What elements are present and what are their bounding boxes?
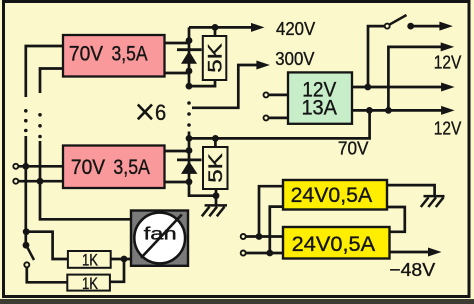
arrow -48V	[428, 248, 442, 257]
switch S2 contact	[24, 262, 29, 267]
U3 terminal lower	[264, 115, 269, 120]
svg-text:12V: 12V	[434, 52, 462, 73]
wire: R3/R4 right link	[110, 259, 124, 282]
dotted bus column1	[24, 109, 28, 132]
wire: module1 left input lower	[40, 69, 63, 94]
arrow 12V mid upper	[441, 83, 455, 92]
dotted bus column2	[38, 113, 42, 138]
wire: R3 right lead to fan	[111, 258, 131, 261]
ground module2	[202, 205, 227, 216]
wire: U4 output to ground	[387, 185, 435, 196]
yellow terminal lower	[241, 251, 246, 256]
node dot fan link	[121, 256, 128, 263]
converter U3 12V 13A	[288, 72, 352, 123]
svg-text:24V0,5A: 24V0,5A	[291, 184, 373, 207]
input terminal lower	[13, 179, 18, 184]
svg-text:24V0,5A: 24V0,5A	[292, 233, 375, 256]
node dots module1	[186, 24, 219, 90]
wire: switch S1 output to arrow	[411, 25, 441, 28]
wire: left bus column1 solid lower	[24, 136, 27, 245]
svg-text:12V: 12V	[434, 118, 462, 139]
wire: bus A to switch S1	[368, 26, 385, 87]
arrow 300V	[256, 61, 270, 70]
svg-text:1K: 1K	[82, 274, 99, 293]
input terminal upper	[13, 164, 18, 169]
diode D2	[177, 160, 202, 174]
resistor R2 5K	[203, 147, 228, 189]
svg-text:300V: 300V	[275, 48, 315, 69]
svg-text:5K: 5K	[206, 43, 227, 73]
wire: U5 output -48V	[390, 251, 430, 254]
node dots left inputs	[22, 163, 43, 235]
module U1 70V 3,5A box	[63, 35, 165, 77]
arrow switch output	[439, 22, 453, 31]
wire: green converter input lower	[268, 117, 288, 120]
svg-text:70V: 70V	[71, 156, 105, 179]
module U2 70V 3,5A box	[63, 146, 165, 189]
module U5 24V0,5A	[283, 227, 390, 259]
dotted bus column3	[187, 101, 191, 127]
wire: bus B to second 12V arrow	[388, 47, 442, 111]
fan unit	[131, 211, 188, 266]
resistor R1 5K	[203, 36, 227, 80]
wire: U4-U5 series link	[387, 207, 405, 232]
switch S2 blade	[26, 245, 34, 260]
wire: resistor R1 bottom lead	[189, 80, 215, 86]
wire: module1 output bus vertical	[188, 27, 191, 86]
arrow 420V	[251, 23, 265, 32]
wire: module2 left input lower	[18, 180, 63, 183]
wire: yellow module terminal upper feed	[246, 235, 283, 238]
diode D1	[177, 50, 202, 64]
svg-text:6: 6	[155, 100, 166, 125]
arrow 12V top	[441, 42, 455, 51]
wire: ground stub module2	[215, 196, 218, 206]
wire: left bus column2 solid lower	[40, 141, 131, 219]
wire: module1 right lead lower	[165, 72, 190, 75]
wire: U4 feed branch lower	[270, 207, 283, 253]
wire: module1 right lead upper	[165, 42, 190, 45]
svg-text:1K: 1K	[82, 250, 99, 269]
arrow 12V mid lower	[441, 106, 455, 115]
node dots yellow feeds	[256, 233, 274, 256]
svg-text:3,5A: 3,5A	[113, 156, 149, 179]
node dots right side	[364, 23, 414, 114]
svg-text:70V: 70V	[69, 42, 103, 65]
wire: 300V tap	[192, 65, 258, 108]
wire: module2 left input upper	[18, 165, 63, 168]
yellow terminal upper	[241, 234, 246, 239]
svg-text:5K: 5K	[206, 153, 227, 183]
ground right	[421, 196, 445, 207]
bottom scan band	[0, 299, 474, 304]
wire: 70V line to right bus	[189, 110, 370, 138]
label x6	[138, 105, 152, 120]
switch S1 contact	[385, 24, 390, 29]
resistor R4 1K	[67, 274, 110, 293]
wire: module2 bus vertical	[189, 132, 216, 196]
node dots module2	[186, 135, 220, 199]
wire: yellow module terminal lower feed	[246, 252, 283, 255]
wire: module1 left input upper	[26, 46, 63, 97]
switch S1 blade	[389, 15, 406, 25]
wire: 12V output lower	[352, 109, 443, 112]
wire: resistor R1 top lead	[214, 27, 217, 36]
svg-text:3,5A: 3,5A	[112, 42, 148, 65]
wire: module2 right lead lower	[165, 181, 190, 184]
svg-text:70V: 70V	[338, 138, 369, 159]
wire: 12V output upper	[352, 86, 443, 89]
wire: 420V line	[189, 26, 253, 29]
wire: U4 feed branch upper	[259, 186, 283, 236]
module U4 24V0,5A	[283, 180, 387, 210]
wire: module2 right lead upper	[165, 150, 190, 153]
wire: resistor R2 top lead	[214, 138, 217, 147]
wire: switch S2 feed to R3	[26, 232, 68, 259]
wire: resistor R2 bottom lead	[215, 189, 218, 196]
U3 terminal upper	[264, 92, 269, 97]
wire: R4 left feed from switch contact	[27, 267, 68, 282]
svg-text:420V: 420V	[276, 18, 316, 39]
svg-text:−48V: −48V	[389, 259, 436, 280]
resistor R3 1K	[68, 250, 111, 269]
wire: green converter input upper	[268, 94, 288, 97]
svg-text:13A: 13A	[301, 96, 337, 119]
switch S2 pivot dot	[23, 242, 30, 249]
